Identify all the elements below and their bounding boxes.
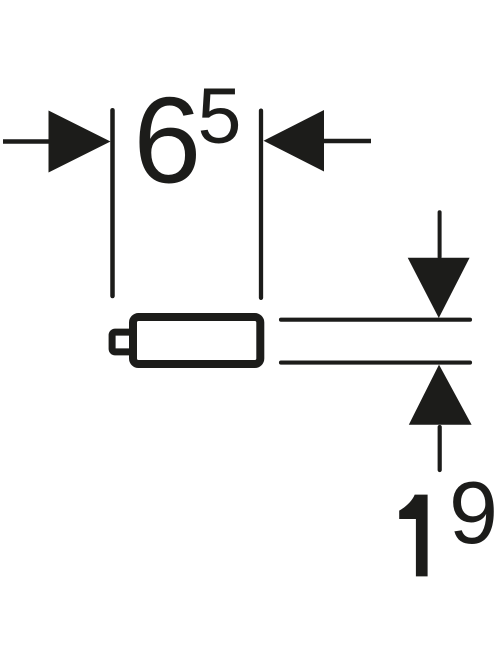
dimension arrow up	[409, 365, 472, 425]
extension line left	[110, 110, 115, 296]
dimension tail line left	[3, 139, 52, 144]
svg-text:5: 5	[198, 70, 242, 159]
dimension arrow right (points left)	[264, 110, 325, 172]
svg-text:6: 6	[133, 72, 201, 209]
dimension arrow down	[408, 258, 470, 318]
pipe top wall line	[281, 318, 470, 322]
svg-text:9: 9	[449, 463, 496, 562]
fitting nub (left connector)	[112, 332, 136, 352]
dimension arrow left (points right)	[49, 111, 111, 173]
pipe bottom wall line	[281, 361, 470, 365]
extension line right	[259, 111, 263, 298]
dimension tail line upper right	[438, 212, 442, 257]
fitting body	[133, 317, 260, 364]
label 1 (dimension 1.9 main digit, custom glyph)	[399, 495, 427, 577]
dimension tail line lower right	[438, 427, 442, 470]
dimension tail line right	[324, 139, 371, 143]
